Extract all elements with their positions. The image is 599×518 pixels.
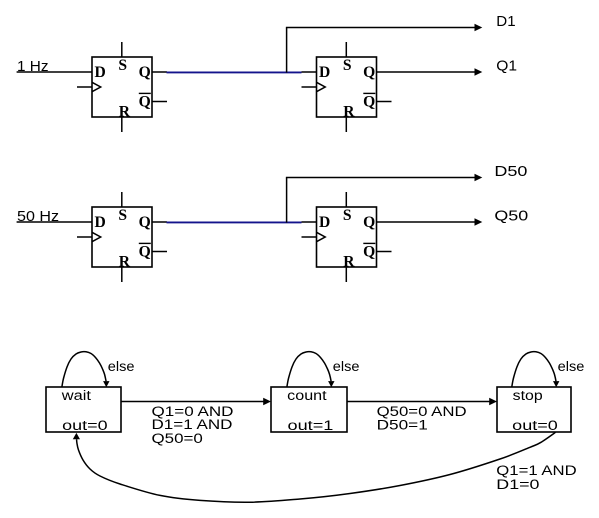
wire net U1a Q to U1b D (blue) (167, 71, 302, 73)
wire U1a Qbar stub (152, 101, 167, 103)
wire clock stub U1b (302, 86, 317, 88)
arrowhead Q50 (475, 218, 483, 225)
svg-text:Q: Q (363, 214, 375, 231)
svg-text:D: D (319, 64, 330, 81)
svg-text:D: D (95, 214, 106, 231)
svg-text:Q1=1 AND: Q1=1 AND (496, 463, 577, 478)
wire U1b Qbar stub (377, 101, 392, 103)
arrowhead Q1 (475, 68, 483, 75)
transition stop to wait return curve (77, 432, 556, 502)
wire U50a Qbar stub (152, 251, 167, 253)
svg-text:D50=1: D50=1 (377, 417, 428, 432)
U1b pin S stub (345, 42, 347, 57)
transition count to stop wire (347, 401, 490, 403)
arrowhead else loop into wait (103, 381, 109, 387)
U1a clock chevron (92, 82, 101, 91)
svg-text:R: R (119, 253, 131, 270)
U50a pin S stub (121, 192, 123, 207)
U1a body (92, 57, 152, 117)
svg-text:Q: Q (139, 94, 151, 111)
wire D50 output (286, 177, 476, 179)
svg-text:D1=1 AND: D1=1 AND (152, 417, 233, 432)
flip-flop U1b (317, 42, 377, 132)
flip-flop U50a (92, 192, 152, 282)
wire Q1 output (377, 71, 476, 73)
svg-text:S: S (343, 207, 352, 224)
flip-flop U50b (317, 192, 377, 282)
state stop box (497, 387, 571, 432)
transition wait to count wire (121, 401, 264, 403)
svg-text:stop: stop (513, 388, 543, 403)
U1a pin S stub (121, 42, 123, 57)
svg-text:S: S (343, 57, 352, 74)
U50a body (92, 207, 152, 267)
U50b clock chevron (317, 232, 326, 241)
svg-text:out=0: out=0 (512, 418, 558, 433)
svg-text:R: R (119, 103, 131, 120)
svg-text:Q50: Q50 (494, 207, 528, 224)
state wait box (46, 387, 121, 432)
U50b pin R stub (345, 267, 347, 282)
svg-text:Q1: Q1 (496, 57, 517, 74)
svg-text:else: else (558, 359, 585, 374)
svg-text:out=1: out=1 (288, 418, 334, 433)
svg-text:R: R (343, 253, 355, 270)
svg-text:wait: wait (61, 388, 92, 403)
wire clock stub U50b (302, 236, 317, 238)
arrowhead else loop into stop (553, 381, 559, 387)
wire clock stub U50a (77, 236, 92, 238)
svg-text:D1=0: D1=0 (496, 477, 539, 492)
wire 1 Hz input to U1a D (17, 71, 92, 73)
svg-text:Q: Q (363, 64, 375, 81)
junction D50 branch (286, 178, 288, 223)
flip-flop U1a (92, 42, 152, 132)
state count box (271, 387, 347, 432)
U1b clock chevron (317, 82, 326, 91)
wire U1a Q output stub (152, 71, 167, 73)
wire U50a Q output stub (152, 221, 167, 223)
wire U1b D input stub (302, 71, 317, 73)
wire net U50a Q to U50b D (blue) (167, 221, 302, 223)
svg-text:Q: Q (139, 64, 151, 81)
wire D1 output (286, 27, 476, 29)
wire 50 Hz input to U50a D (17, 221, 92, 223)
U1a pin R stub (121, 117, 123, 132)
arrowhead else loop into count (328, 381, 334, 387)
U1b pin R stub (345, 117, 347, 132)
svg-text:Q: Q (139, 244, 151, 261)
svg-text:else: else (333, 359, 360, 374)
junction D1 branch (286, 28, 288, 73)
svg-text:D: D (319, 214, 330, 231)
U50b pin S stub (345, 192, 347, 207)
transition self-loop else on wait (62, 352, 106, 388)
arrowhead into wait bottom (73, 433, 80, 439)
svg-text:Q50=0: Q50=0 (152, 431, 203, 446)
svg-text:else: else (108, 359, 135, 374)
transition self-loop else on count (287, 352, 331, 388)
arrowhead D50 (475, 174, 483, 181)
U50a pin R stub (121, 267, 123, 282)
svg-text:Q: Q (139, 214, 151, 231)
arrowhead into count (263, 398, 271, 405)
U1b body (317, 57, 377, 117)
wire clock stub U1a (77, 86, 92, 88)
wire U50b Qbar stub (377, 251, 392, 253)
transition self-loop else on stop (512, 352, 556, 388)
svg-text:S: S (118, 57, 127, 74)
svg-text:D: D (95, 64, 106, 81)
svg-text:count: count (287, 388, 327, 403)
wire U50b D input stub (302, 221, 317, 223)
svg-text:R: R (343, 103, 355, 120)
U50a clock chevron (92, 232, 101, 241)
svg-text:D50: D50 (494, 163, 527, 180)
wire Q50 output (377, 221, 476, 223)
svg-text:D1: D1 (496, 13, 515, 30)
svg-text:S: S (118, 207, 127, 224)
arrowhead D1 (475, 24, 483, 31)
svg-text:out=0: out=0 (62, 418, 107, 433)
svg-text:Q: Q (363, 244, 375, 261)
arrowhead into stop (489, 398, 497, 405)
svg-text:Q: Q (363, 94, 375, 111)
U50b body (317, 207, 377, 267)
